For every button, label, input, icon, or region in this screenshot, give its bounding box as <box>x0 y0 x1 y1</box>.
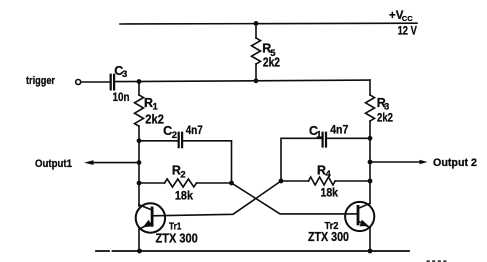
wire: R5 bottom lead <box>255 64 257 81</box>
wire: Tr1 emitter to ground <box>138 229 140 251</box>
artifact: faint dots bottom right <box>427 260 447 262</box>
resistor R2 <box>165 179 197 187</box>
wire: R5 top lead <box>255 23 257 38</box>
svg-text:2k2: 2k2 <box>377 110 393 124</box>
svg-text:12 V: 12 V <box>398 26 418 38</box>
svg-text:18k: 18k <box>321 186 339 200</box>
resistor R1 top lead <box>138 82 140 96</box>
svg-text:C: C <box>163 124 172 138</box>
transistor Tr1 circle <box>136 203 165 232</box>
wire: left rail C2 node to Output1 node <box>138 141 140 163</box>
svg-text:4n7: 4n7 <box>186 123 203 137</box>
resistor R4 <box>309 177 336 185</box>
transistor Tr2 emitter diagonal <box>358 221 370 228</box>
svg-text:2k2: 2k2 <box>263 55 280 69</box>
transistor Tr2 base bar <box>357 206 360 224</box>
svg-text:10n: 10n <box>113 90 130 104</box>
svg-text:2: 2 <box>180 169 185 180</box>
svg-text:4: 4 <box>326 169 332 180</box>
transistor Tr1 emitter diagonal <box>139 223 152 230</box>
transistor Tr2 emitter arrowhead <box>360 220 369 227</box>
wire: right rail Output2 node to R4 node <box>369 162 371 181</box>
svg-text:ZTX 300: ZTX 300 <box>308 229 349 244</box>
svg-text:CC: CC <box>402 14 413 23</box>
wire: right rail corner down to R3 <box>369 80 371 95</box>
wire: ground rail <box>96 250 409 252</box>
capacitor C2 plates <box>179 133 182 148</box>
wire: C1 left lead and drop to R4 node <box>281 138 322 181</box>
svg-text:18k: 18k <box>175 188 193 202</box>
capacitor C1 plates <box>323 133 326 147</box>
resistor R3 <box>366 95 375 121</box>
node: top rail / R5 junction <box>254 21 259 26</box>
svg-text:3: 3 <box>122 69 127 80</box>
resistor R5 <box>252 38 261 64</box>
node: R2 left junction <box>137 181 142 186</box>
wire: R4 left lead <box>281 180 309 182</box>
wire: C2 right lead to corner <box>183 141 231 183</box>
capacitor C3 plates <box>111 75 114 90</box>
svg-text:4n7: 4n7 <box>330 123 348 137</box>
svg-text:2: 2 <box>172 130 177 141</box>
transistor Tr2 circle <box>345 202 374 231</box>
svg-text:ZTX 300: ZTX 300 <box>156 231 198 246</box>
svg-text:1: 1 <box>153 102 159 113</box>
svg-text:Output 2: Output 2 <box>433 157 477 169</box>
node: Tr2 emitter / ground junction <box>368 249 373 254</box>
wire: right rail R4 node down to Tr2 collector <box>369 181 371 204</box>
transistor Tr2 collector diagonal <box>358 203 370 208</box>
node: Output1 junction <box>137 160 142 165</box>
wire: R2 left lead <box>139 182 165 184</box>
wire: Tr2 emitter to ground <box>369 228 371 252</box>
resistor R1 <box>135 95 144 126</box>
svg-text:trigger: trigger <box>26 75 56 87</box>
wire: left rail R2 node down to Tr1 collector <box>138 183 140 206</box>
node: R2 right / C2 / cross junction <box>229 181 234 186</box>
arrowhead: Output 2 <box>420 160 428 165</box>
wire: trigger node horizontal rail <box>115 80 370 82</box>
svg-text:2k2: 2k2 <box>145 112 164 126</box>
wire: C1 right lead <box>327 137 370 139</box>
wire: R3 bottom to C1 node <box>369 121 371 138</box>
node: trigger line / R1 junction <box>137 79 142 84</box>
node: R4 right junction <box>368 179 373 184</box>
wire: Output 1 arrow line <box>89 162 139 164</box>
wire: R4 right lead <box>335 180 370 182</box>
node: Output2 junction <box>368 160 373 165</box>
node: C1 right junction <box>368 136 373 141</box>
svg-text:Output1: Output1 <box>35 158 72 170</box>
wire: right rail C1 node to Output2 node <box>369 138 371 162</box>
wire: +Vcc top rail <box>120 22 417 25</box>
terminal: trigger input circle <box>76 80 81 85</box>
node: C2 / left rail junction <box>137 138 142 143</box>
node: R4 left / C1 / cross junction <box>279 179 284 184</box>
wire: trigger terminal to C3 <box>81 81 110 83</box>
wire: Output 2 arrow line <box>370 161 422 163</box>
node: trigger line / R5 junction <box>254 78 259 83</box>
wire: R2 right lead <box>197 182 232 184</box>
wire: C2 left lead <box>139 140 178 142</box>
wire: cross-coupling diagonal to Tr2 base <box>232 183 358 214</box>
svg-text:1: 1 <box>316 130 322 141</box>
wire: left rail Output1 node to R2 node <box>138 163 140 183</box>
wire: R1 bottom to C2 node <box>138 126 140 141</box>
node: Tr1 emitter / ground junction <box>137 249 142 254</box>
wire: cross-coupling diagonal to Tr1 base <box>153 181 281 216</box>
transistor Tr1 collector diagonal <box>139 205 152 210</box>
arrowhead: Output 1 <box>84 160 94 165</box>
transistor Tr1 emitter arrowhead <box>143 220 152 227</box>
transistor Tr1 base bar <box>151 208 154 225</box>
